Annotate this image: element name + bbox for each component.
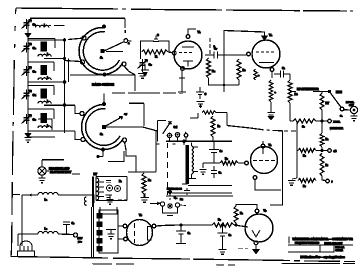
svg-text:Rₕ: Rₕ xyxy=(240,212,244,215)
svg-text:R₄: R₄ xyxy=(212,69,216,73)
svg-text:C₄: C₄ xyxy=(33,93,37,97)
svg-text:V₆: V₆ xyxy=(264,209,268,213)
svg-text:V₃: V₃ xyxy=(269,143,273,147)
svg-text:R₁: R₁ xyxy=(326,138,329,141)
svg-text:R₆: R₆ xyxy=(218,126,221,128)
svg-text:S₂: S₂ xyxy=(340,116,342,118)
svg-text:R: R xyxy=(155,55,158,59)
svg-text:Cal: Cal xyxy=(174,126,178,129)
svg-text:a: a xyxy=(258,75,260,77)
svg-text:Cₙ: Cₙ xyxy=(72,222,75,225)
svg-text:OUT: OUT xyxy=(349,105,354,107)
svg-text:a: a xyxy=(275,92,277,94)
svg-text:C₉: C₉ xyxy=(220,150,223,153)
svg-text:DWG 4-A: DWG 4-A xyxy=(336,246,345,249)
svg-text:RT: RT xyxy=(326,101,330,105)
svg-text:Rₐ: Rₐ xyxy=(218,219,221,222)
svg-text:60∿: 60∿ xyxy=(78,241,82,244)
svg-text:M₁ₗ: M₁ₗ xyxy=(180,198,183,201)
svg-text:PILOT LIGHT ASSY: PILOT LIGHT ASSY xyxy=(50,171,72,174)
svg-text:C₅: C₅ xyxy=(33,118,37,122)
svg-text:Cₐ: Cₐ xyxy=(188,232,191,235)
svg-text:V₂: V₂ xyxy=(269,33,273,37)
svg-text:Sₘ: Sₘ xyxy=(174,197,178,201)
svg-text:Rᵣ: Rᵣ xyxy=(326,164,329,167)
svg-text:C₂: C₂ xyxy=(33,46,37,50)
svg-text:Cₒ: Cₒ xyxy=(302,126,305,129)
svg-text:Rₐ: Rₐ xyxy=(119,181,122,183)
svg-text:R₆: R₆ xyxy=(225,158,228,161)
svg-text:S₁: S₁ xyxy=(100,132,103,136)
svg-text:C₁: C₁ xyxy=(219,172,222,175)
svg-text:C₁: C₁ xyxy=(282,67,285,70)
svg-text:Cₑ: Cₑ xyxy=(229,234,232,237)
svg-text:R₉: R₉ xyxy=(295,92,299,96)
svg-text:FREQUENCY STANDARD: FREQUENCY STANDARD xyxy=(295,242,320,245)
svg-text:NE-2 NEON LAMP: NE-2 NEON LAMP xyxy=(49,168,70,171)
svg-text:BAND SWITCH: BAND SWITCH xyxy=(92,83,115,87)
svg-text:RT: RT xyxy=(94,172,98,176)
svg-text:MILLER 912-C4: MILLER 912-C4 xyxy=(167,188,182,191)
svg-text:V₁: V₁ xyxy=(198,30,202,34)
svg-text:C₇: C₇ xyxy=(214,47,217,51)
svg-text:Rᵤ: Rᵤ xyxy=(148,178,151,182)
svg-text:+B: +B xyxy=(334,151,337,153)
svg-text:WAVEMETER CALIBRATOR — SCHEMAT: WAVEMETER CALIBRATOR — SCHEMATIC V-2 xyxy=(293,237,354,241)
svg-text:NOTE: all res ½ w — caps: NOTE: all res ½ w — caps in µµfd unless xyxy=(301,255,346,259)
svg-text:C: C xyxy=(157,34,159,37)
svg-text:C₃: C₃ xyxy=(33,70,37,74)
svg-text:a: a xyxy=(128,42,130,45)
svg-text:X CAL: X CAL xyxy=(334,121,341,124)
svg-text:J₁: J₁ xyxy=(100,56,104,60)
svg-text:L₂: L₂ xyxy=(45,228,48,231)
svg-text:SHT 1/1: SHT 1/1 xyxy=(336,250,344,252)
svg-text:V₅: V₅ xyxy=(139,213,143,217)
svg-text:C: C xyxy=(205,93,207,96)
svg-text:C₆: C₆ xyxy=(149,63,153,67)
svg-text:∿r: ∿r xyxy=(124,113,127,116)
svg-text:L₁: L₁ xyxy=(45,199,48,202)
svg-text:Rₑ: Rₑ xyxy=(303,185,306,188)
svg-text:RF CAL: RF CAL xyxy=(346,101,355,104)
svg-text:HIGH: HIGH xyxy=(336,92,342,94)
svg-text:RF ATTENUATOR: RF ATTENUATOR xyxy=(297,87,319,91)
svg-text:115V: 115V xyxy=(78,238,83,240)
svg-text:Rₐ: Rₐ xyxy=(303,155,306,158)
svg-text:R₅: R₅ xyxy=(243,68,247,72)
svg-text:MULTIPLIER: MULTIPLIER xyxy=(330,128,343,130)
svg-text:r: r xyxy=(332,182,333,184)
